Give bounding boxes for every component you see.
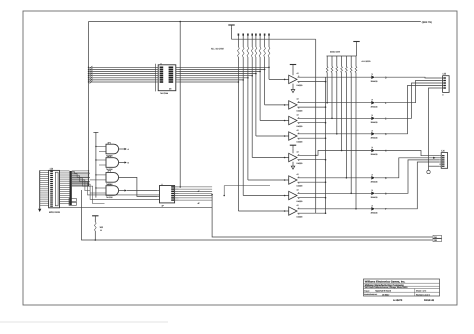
wire RP1 row 8 to bus	[72, 185, 89, 186]
wire RP1 row 3 to bus	[72, 174, 89, 175]
resistor R8 10ohm pull-up	[268, 34, 270, 80]
wire +5V rail right bank	[327, 55, 357, 57]
svg-text:PAGE 45: PAGE 45	[424, 299, 435, 302]
wire J3 pin 3 left	[40, 174, 49, 176]
connector J5	[441, 73, 449, 97]
label ALL 10 OHM	[211, 48, 224, 51]
wire data line D3 left segment	[88, 72, 156, 75]
wire +5V feed vertical right of rail	[315, 39, 317, 213]
svg-text:LM339: LM339	[297, 184, 303, 187]
svg-text:ALL 10 OHM: ALL 10 OHM	[211, 48, 224, 51]
resistor R5 10ohm pull-up	[255, 34, 257, 137]
svg-text:LM339: LM339	[297, 162, 303, 165]
transistor Q4 2N4403	[371, 130, 387, 139]
op-amp comparator U4 LM339	[289, 113, 303, 128]
wire J3 pin 2 left	[40, 171, 49, 173]
wire Q6 to J4 pin2	[375, 158, 439, 178]
wire J3 pin 15 left	[40, 198, 49, 200]
svg-text:3401 North California Avenue,: 3401 North California Avenue, Chicago, I…	[365, 286, 408, 289]
wire RP1 row 4 to bus	[72, 176, 89, 177]
node SEE 7B label	[422, 21, 432, 24]
wire comparator input row 3	[248, 179, 289, 181]
wire comparator U4 lower input	[297, 122, 326, 124]
wire fan segment 7	[72, 184, 160, 199]
wire data line D2 left segment	[88, 70, 156, 73]
resistor network box A	[69, 199, 76, 202]
svg-text:2N4403: 2N4403	[371, 105, 378, 108]
transistor Q7 2N4403	[371, 190, 387, 199]
svg-text:(SEE 7B): (SEE 7B)	[422, 21, 432, 24]
svg-text:2N4403: 2N4403	[371, 153, 378, 156]
wire J3 pin 8 left	[40, 184, 49, 186]
resistor R2 10ohm pull-up	[242, 34, 244, 196]
wire data line D3 right segment	[179, 73, 257, 75]
wire fan segment 5	[72, 180, 90, 191]
wire comparator minus-input bus	[325, 77, 327, 213]
wire J3 pin 14 right	[60, 197, 70, 199]
svg-text:LM339: LM339	[297, 84, 303, 87]
svg-text:2N4403: 2N4403	[371, 196, 378, 199]
ground diamond comparator U6	[291, 162, 295, 170]
scan artifact line	[0, 321, 168, 323]
svg-text:4J: 4J	[297, 188, 299, 191]
op-amp comparator U9 LM339	[289, 204, 303, 219]
wire comparator U9 output row	[297, 208, 371, 210]
svg-text:2N4403: 2N4403	[371, 80, 378, 83]
svg-text:4J: 4J	[297, 173, 299, 176]
svg-text:2N4403: 2N4403	[371, 136, 378, 139]
logic IC U10 (DIP)	[157, 184, 178, 208]
wire J3 pin 17 left	[40, 202, 49, 204]
svg-text:A-15470: A-15470	[393, 299, 403, 302]
wire data line D1 left segment	[88, 68, 156, 71]
wire data line D0 right segment	[179, 67, 270, 69]
svg-text:5: 5	[298, 116, 299, 119]
wire net SEE-7B top run	[89, 21, 421, 23]
power +5V arrow comparator U2	[290, 65, 296, 76]
resistor R4 10ohm pull-up	[251, 34, 253, 158]
wire J3 pin 5 right	[60, 178, 70, 180]
svg-text:5: 5	[298, 191, 299, 194]
wire J3 bottom row long run	[60, 206, 213, 208]
connector J3	[49, 167, 61, 214]
wire comparator input row 1	[238, 210, 288, 212]
wire G3 output to U10	[119, 177, 158, 196]
wire comparator U4 output row	[297, 117, 371, 119]
wire RP1 row 2 to bus	[72, 172, 89, 173]
logic gate G3 7408	[90, 170, 119, 186]
wire J3 pin 10 right	[60, 188, 70, 190]
wire comparator U7 lower input	[297, 181, 326, 183]
svg-text:16-9047: 16-9047	[382, 293, 390, 296]
transistor Q1 2N4403	[371, 74, 387, 83]
resistor network box B	[69, 202, 76, 205]
svg-text:5: 5	[298, 153, 299, 156]
wire U10 output 5	[179, 195, 213, 197]
wire comparator U2 output row	[297, 76, 371, 78]
wire bus left of J3	[39, 170, 41, 208]
transistor Q3 2N4403	[371, 115, 387, 124]
resistor R14 500ohm	[341, 56, 343, 151]
wire U10 output 7	[179, 199, 213, 201]
svg-text:5: 5	[298, 132, 299, 135]
wire U10 output 3	[179, 190, 213, 192]
label 4F above band	[198, 190, 201, 193]
op-amp comparator U3 LM339	[289, 98, 303, 113]
label 4F below band	[198, 202, 201, 205]
wire J3 pin 3 right	[60, 174, 70, 176]
wire comparator U3 output row	[297, 102, 371, 104]
label 500 ohm halfwatt	[330, 51, 340, 54]
resistor R12 500ohm	[331, 56, 333, 119]
wire J3 pin 4 right	[60, 176, 70, 178]
wire vertical net at x=180	[179, 21, 181, 188]
svg-text:74LS08: 74LS08	[106, 196, 112, 199]
wire J3 pin 13 right	[60, 195, 70, 197]
wire comparator U7 output row	[297, 177, 371, 179]
svg-text:5: 5	[298, 207, 299, 210]
wire J3 pin 7 right	[60, 182, 70, 184]
svg-text:5: 5	[298, 176, 299, 179]
wire comparator input row 5	[256, 135, 289, 137]
wire J3 pin 5 left	[40, 178, 49, 180]
svg-text:9: 9	[442, 94, 443, 97]
svg-text:2N4403: 2N4403	[371, 121, 378, 124]
wire Q8 to J4 pin4	[375, 162, 439, 209]
wire data line D2 right segment	[179, 71, 261, 73]
svg-text:5: 5	[298, 101, 299, 104]
svg-text:2N4403: 2N4403	[371, 180, 378, 183]
wire data line D1 right segment	[179, 69, 266, 71]
connector J4	[439, 150, 447, 169]
resistor pack RP1	[70, 171, 72, 206]
svg-text:4J: 4J	[297, 113, 299, 116]
wire J3 pin 4 left	[40, 176, 49, 178]
wire data line D5 right segment	[179, 77, 249, 79]
wire +5V rail top	[232, 38, 316, 40]
wire RP1 row 1 to bus	[72, 170, 89, 171]
op-amp comparator U5 LM339	[289, 129, 303, 144]
svg-text:ALL 500Ω: ALL 500Ω	[362, 60, 371, 63]
wire comparator U8 lower input	[297, 197, 326, 199]
wire comparator input row 7	[265, 104, 289, 106]
resistor R11 500ohm	[326, 56, 328, 103]
wire Q3 to J5 pin3	[375, 83, 441, 118]
wire G1 output	[119, 148, 130, 151]
svg-text:5: 5	[298, 75, 299, 78]
resistor R1 10ohm pull-up	[238, 34, 240, 212]
wire fan segment 4	[72, 178, 90, 186]
wire Q1 to J5 pin1	[375, 76, 441, 79]
wire J3 pin 15 right	[60, 199, 70, 201]
wire J3 pin 16 right	[60, 201, 70, 203]
svg-text:4J: 4J	[297, 72, 299, 75]
wire comparator U5 output row	[297, 133, 371, 135]
wire RP1 row 7 to bus	[72, 183, 89, 184]
wire J3 pin 12 left	[40, 192, 49, 194]
wire J3 pin 8 right	[60, 184, 70, 186]
wire J3 pin 1 left	[40, 169, 49, 171]
wire Q5 to J4 pin1	[375, 151, 439, 156]
title block	[364, 279, 440, 302]
transistor Q5 2N4403	[371, 147, 387, 156]
resistor R16 500ohm	[350, 56, 352, 194]
svg-text:Hyperball 9 Board: Hyperball 9 Board	[375, 290, 391, 293]
op-amp buffer IC U1 (DIP)	[156, 63, 179, 95]
wire ground leg J5 to J4	[429, 88, 442, 170]
resistor R17 500ohm	[355, 56, 357, 210]
wire arrow mark on J4 wire	[433, 157, 436, 159]
svg-text:LM339: LM339	[297, 200, 303, 203]
wire comparator U5 lower input	[297, 137, 326, 139]
wire comparator input row 2	[243, 195, 289, 197]
wire data line D7 left segment	[88, 81, 156, 84]
wire fan segment 1	[72, 172, 90, 173]
op-amp comparator U2 LM339	[289, 72, 303, 87]
wire U10 output 4	[179, 193, 213, 195]
svg-text:4J: 4J	[297, 98, 299, 101]
ground circle	[427, 170, 430, 173]
wire J3 pin 14 left	[40, 196, 49, 198]
wire comparator input row 4	[252, 157, 289, 159]
wire J3 pin 11 right	[60, 190, 70, 192]
transistor Q6 2N4403	[371, 174, 387, 183]
wire U10 output 1	[179, 186, 213, 188]
resistor R3 10ohm pull-up	[247, 34, 249, 181]
wire data line D4 left segment	[88, 74, 156, 77]
logic gate G2 7408	[95, 155, 118, 171]
logic gate G1 7408	[95, 141, 118, 157]
wire comparator U9 lower input	[297, 212, 326, 214]
wire data line D5 left segment	[88, 76, 156, 79]
wire comparator U6 output row	[297, 151, 371, 157]
ground diamond comparator U2	[291, 84, 295, 93]
wire comparator U3 lower input	[297, 106, 326, 108]
resistor R15 500ohm	[346, 56, 348, 179]
node 5B label	[433, 238, 442, 242]
wire comparator U2 lower input	[297, 81, 326, 83]
wire J3 pin 11 left	[40, 190, 49, 192]
wire U10 output bus join	[223, 186, 225, 197]
node 5A label	[433, 235, 442, 239]
power +5V arrow top bank	[228, 25, 234, 39]
svg-text:4J: 4J	[297, 150, 299, 153]
resistor R7 10ohm pull-up	[264, 34, 266, 105]
wire comparator input row 6	[260, 120, 289, 122]
wire J3 pin 9 right	[60, 186, 70, 188]
wire J3 pin 1 right	[60, 170, 70, 172]
wire bottom long line lower	[82, 190, 433, 240]
op-amp comparator U6 LM339	[289, 150, 303, 165]
op-amp comparator U7 LM339	[289, 173, 303, 188]
wire J3 pin 18 left	[40, 204, 49, 206]
wire net SEE-7B left vertical	[88, 22, 90, 187]
svg-text:LM339: LM339	[297, 109, 303, 112]
power +5V arrow comparator U6	[290, 145, 296, 153]
wire U10 output 6	[179, 197, 213, 199]
resistor R13 500ohm	[336, 56, 338, 135]
wire comparator U8 output row	[297, 192, 371, 194]
svg-text:500Ω 1/2W: 500Ω 1/2W	[330, 51, 340, 54]
wire gate pull rail	[93, 132, 98, 197]
wire J3 pin 7 left	[40, 182, 49, 184]
wire J3 pin 13 left	[40, 194, 49, 196]
wire data line D6 right segment	[179, 79, 245, 81]
svg-text:LM339: LM339	[297, 215, 303, 218]
wire J3 pin 10 left	[40, 188, 49, 190]
wire G4 output to U10	[119, 189, 158, 191]
power +5V arrow bottom left	[92, 216, 98, 222]
wire Q2 to J5 pin2	[375, 81, 441, 103]
svg-text:MPU DATA: MPU DATA	[49, 211, 61, 214]
wire U10 output 2	[179, 188, 213, 190]
wire J3 pin 16 left	[40, 200, 49, 202]
wire fan segment 6	[72, 182, 160, 195]
wire J3 pin 6 right	[60, 180, 70, 182]
wire fan segment 2	[72, 174, 90, 178]
wire J3 pin 17 right	[60, 203, 70, 205]
ground arrow J3	[38, 209, 41, 212]
wire comparator input row 8	[269, 79, 289, 81]
svg-text:LM339: LM339	[297, 140, 303, 143]
svg-text:LM339: LM339	[297, 125, 303, 128]
svg-text:74LS244: 74LS244	[160, 92, 169, 95]
svg-text:2N4403: 2N4403	[371, 211, 378, 214]
transistor Q8 2N4403	[371, 205, 387, 214]
wire Q4 to J5 pin4	[375, 86, 441, 134]
wire fan segment 8	[72, 186, 105, 204]
power +5V arrow right bank	[353, 42, 359, 57]
logic gate G4 7408	[90, 183, 119, 199]
transistor Q2 2N4403	[371, 99, 387, 108]
wire comparator U6 lower input	[297, 159, 326, 161]
wire data line D4 right segment	[179, 75, 254, 77]
wire J3 pin 6 left	[40, 180, 49, 182]
wire RP1 row 6 to bus	[72, 180, 89, 181]
svg-text:Revision Level 1: Revision Level 1	[416, 293, 430, 296]
wire G2 output	[119, 161, 130, 164]
wire data line D6 left segment	[88, 79, 156, 82]
op-amp comparator U8 LM339	[289, 188, 303, 203]
wire fan segment 3	[72, 176, 90, 182]
wire data line D7 right segment	[179, 81, 240, 83]
wire bottom long line upper	[211, 194, 432, 237]
wire J3 pin 12 right	[60, 192, 70, 194]
svg-text:Sheet 1 of 2: Sheet 1 of 2	[416, 290, 426, 293]
wire Q7 to J4 pin3	[375, 160, 439, 193]
wire stub right of U10 band	[224, 185, 270, 187]
svg-text:4J: 4J	[297, 129, 299, 132]
wire J3 pin 9 left	[40, 186, 49, 188]
label ALL 500	[362, 60, 371, 63]
resistor R6 10ohm pull-up	[259, 34, 261, 121]
resistor R10 100ohm	[94, 222, 103, 241]
svg-text:4J: 4J	[297, 204, 299, 207]
wire J3 pin 2 right	[60, 172, 70, 174]
wire RP1 row 5 to bus	[72, 178, 89, 179]
wire data line D0 left segment	[88, 66, 156, 69]
